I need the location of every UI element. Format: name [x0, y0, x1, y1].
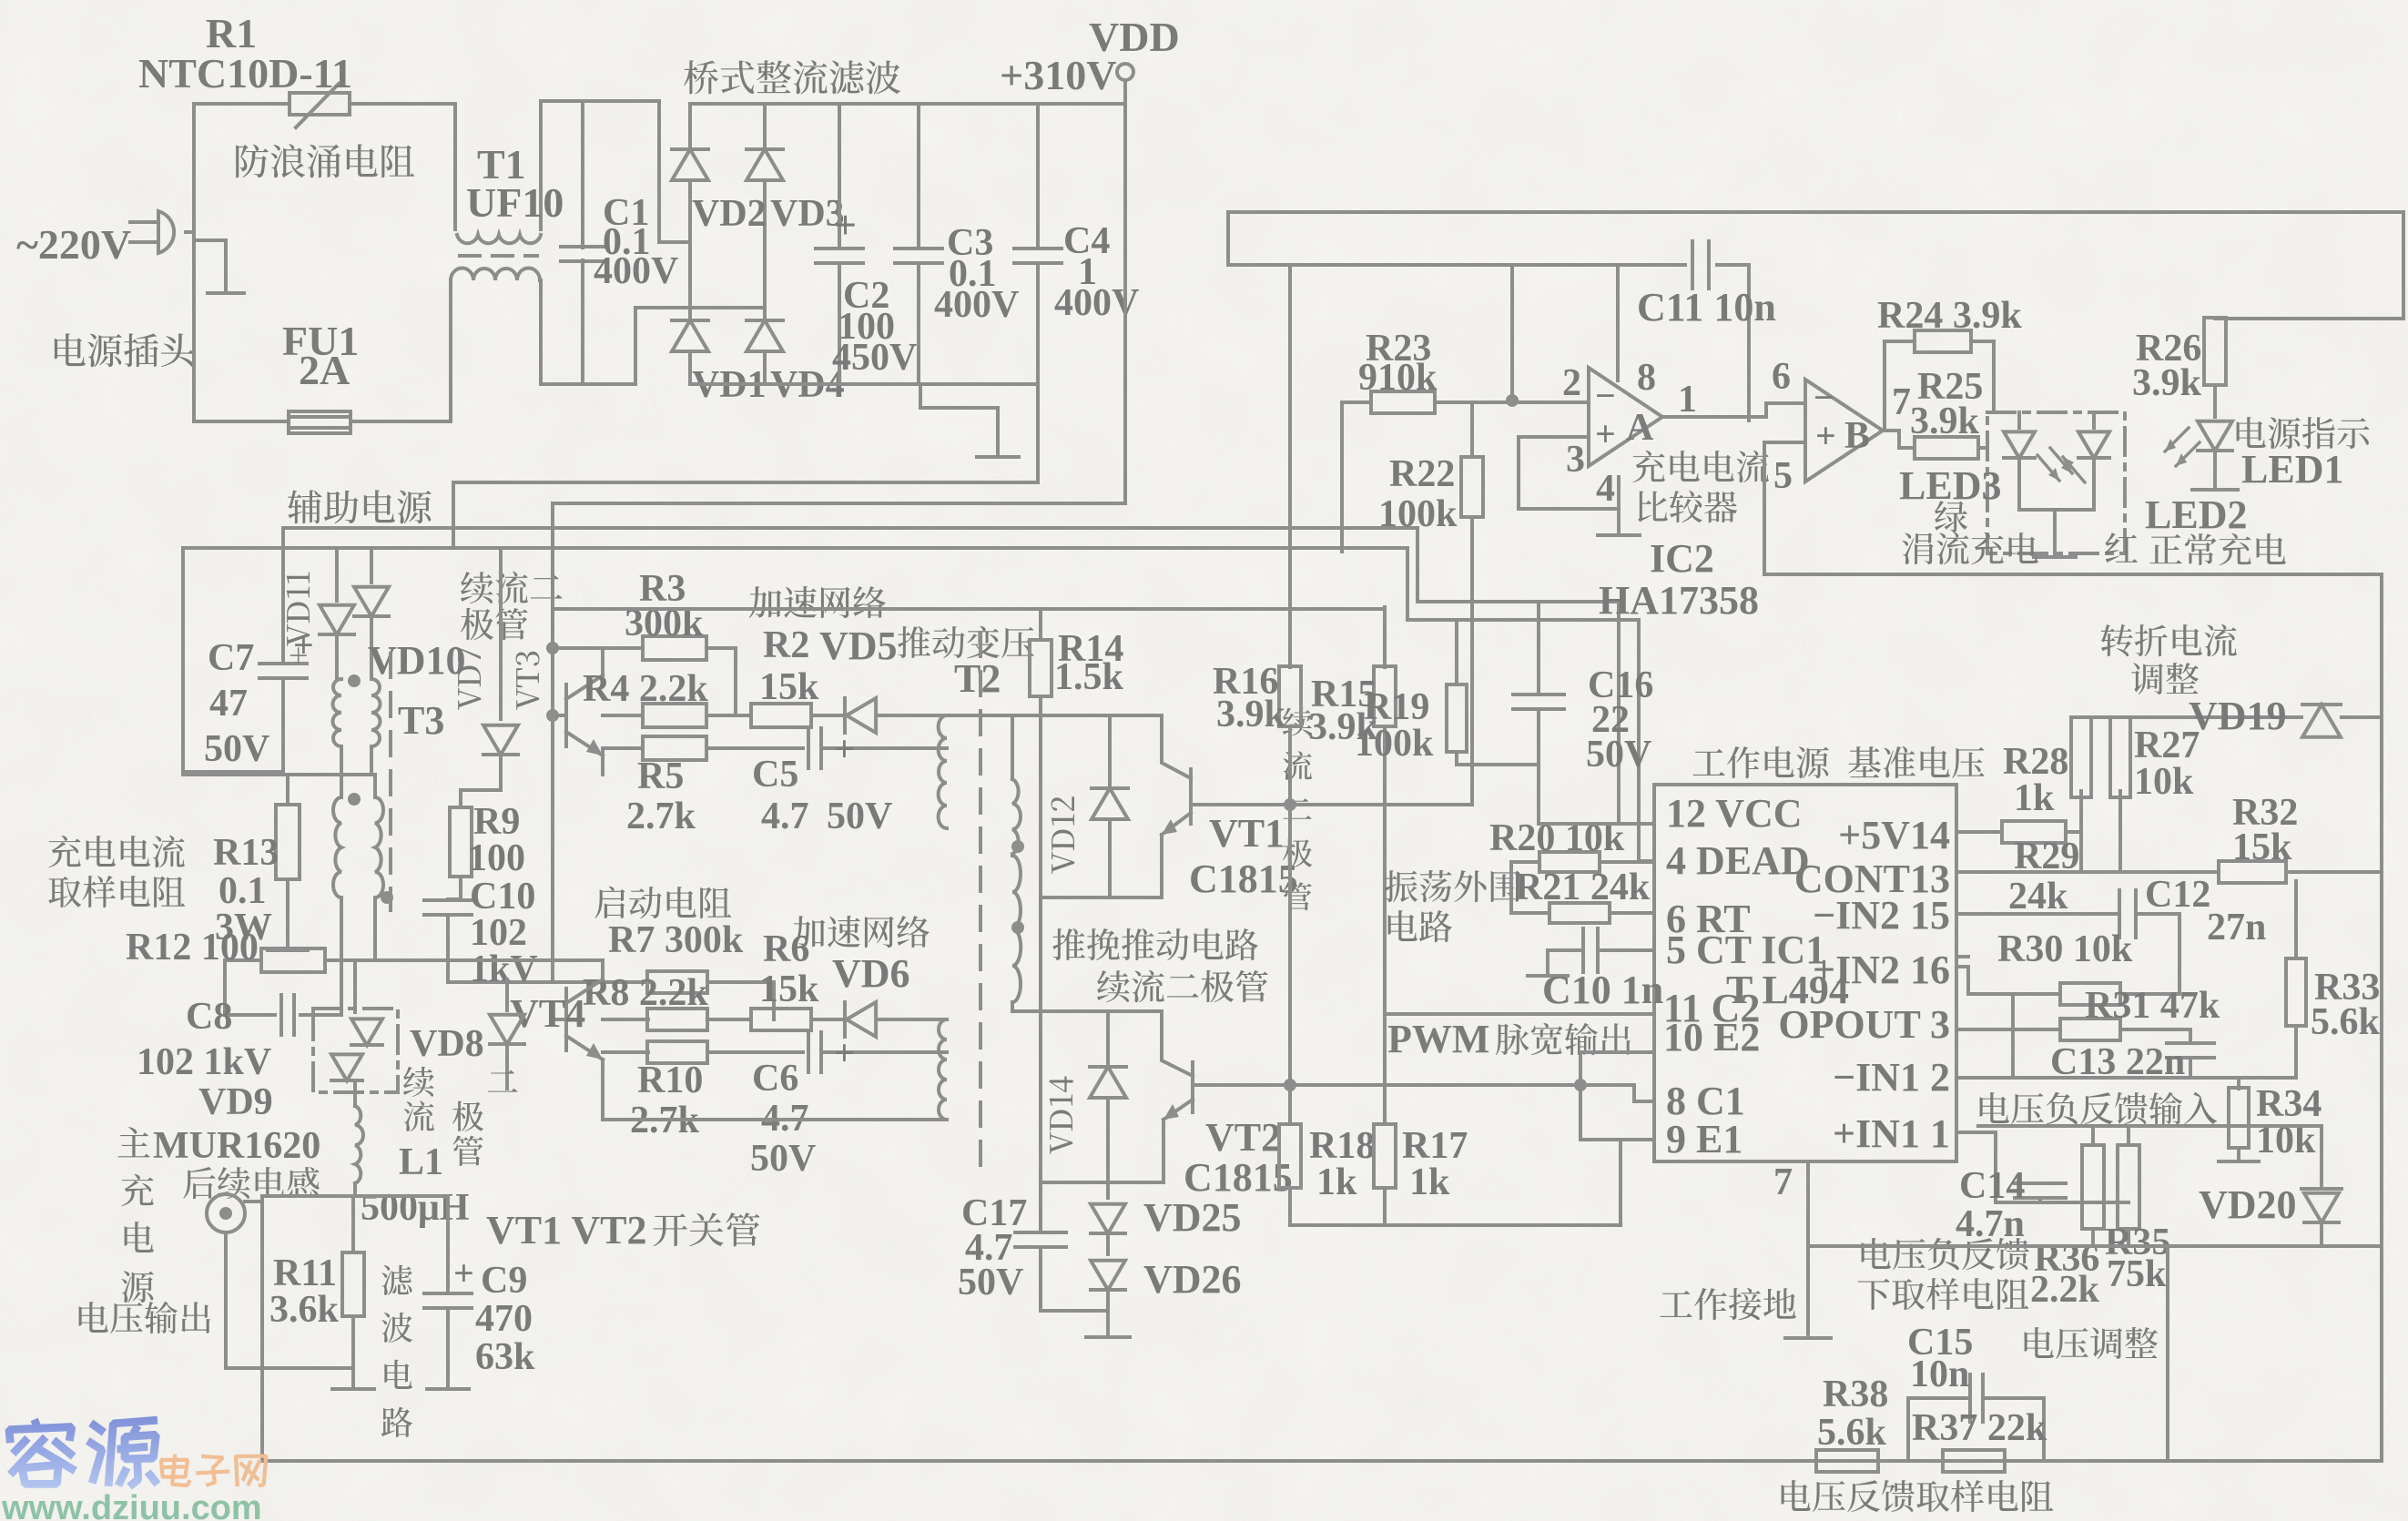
T2 secondary lower coil: [1012, 856, 1021, 1002]
diode VD7: [483, 725, 518, 755]
wire VT1 base row: [1191, 803, 1472, 806]
wire feedback risers: [2166, 1246, 2169, 1461]
wire VT2 base bus to IC: [1193, 1085, 1654, 1101]
wire VD12 bottom row: [1041, 896, 1162, 899]
diode VD26: [1091, 1261, 1125, 1290]
capacitor C15 R37 parallel: [1908, 1398, 1968, 1461]
resistor R10: [603, 1050, 648, 1054]
resistor R5: [603, 746, 643, 750]
op-amp A: [1589, 368, 1662, 466]
wire B out R25: [1883, 431, 1915, 448]
resistor R28: [2071, 717, 2091, 797]
wire pin16 stub: [1956, 967, 1968, 994]
ground VD26: [1086, 1335, 1130, 1339]
diode VD10: [370, 548, 373, 583]
wire feedback row 1237: [1978, 1124, 2322, 1128]
capacitor C8: [223, 960, 227, 1015]
resistor R6: [751, 1009, 811, 1030]
transformer T3 lower windings: [348, 793, 361, 806]
diode VD6: [847, 1002, 876, 1037]
wire pin10 E2 / pin9 E1 tie: [1580, 1050, 1654, 1054]
label 启动电阻: [594, 887, 625, 918]
label 续流二 极管: [461, 572, 493, 603]
label 电源指示 LED1: [2237, 417, 2266, 448]
wire ground row B: [1808, 1244, 2382, 1248]
ground C15 stem: [1806, 1320, 1810, 1323]
watermark 容源: [5, 1418, 77, 1488]
wire VT2 bottom row: [1041, 1181, 1163, 1184]
label 转折电流 调整: [2101, 624, 2133, 656]
LED1: [2198, 421, 2232, 451]
labels 红 正常充电 LED2: [2106, 532, 2138, 563]
wire pin15 row with C12: [1956, 912, 2118, 916]
wire pin1 row and C14 net: [1956, 1132, 2129, 1202]
wire pin11 C2 left to R17 column: [1385, 1012, 1654, 1016]
wire pin2 -IN1 row: [1956, 1076, 2296, 1080]
resistor R38: [1816, 1450, 1878, 1472]
wire AC1 jog to bridge: [541, 99, 659, 103]
wire H3 row: [553, 607, 1385, 611]
resistor R13: [286, 775, 290, 805]
capacitor C4: [1036, 104, 1040, 248]
wire aux box left: [181, 548, 185, 772]
wire VT4 emitter bottom loop: [603, 1089, 947, 1120]
resistor R4: [603, 714, 643, 717]
resistor R11: [351, 1196, 355, 1252]
resistor R15: [1383, 607, 1387, 667]
resistor R8: [603, 1018, 648, 1021]
label 充电电流 比较器: [1632, 451, 1664, 483]
wire T2 top row: [947, 714, 1162, 717]
wire far right vertical: [2380, 574, 2383, 1461]
label 加速网络 2: [793, 916, 825, 948]
wire C11 row y291: [1228, 263, 1685, 267]
capacitor C6: [807, 1032, 810, 1072]
wire C17 column: [1039, 1182, 1042, 1232]
wire ~220V plug top lead: [186, 230, 194, 234]
label 桥式整流滤波: [684, 60, 718, 94]
resistor R7: [551, 715, 554, 982]
label 电压调整: [2025, 1327, 2054, 1358]
wire top row y553 VDD feed: [553, 502, 1125, 505]
resistor R20: [1511, 860, 1539, 864]
capacitor C1: [581, 101, 584, 248]
wire pin14 row: [1956, 830, 2001, 834]
capacitor C14: [2015, 1181, 2066, 1185]
wire output left drop: [224, 1232, 228, 1368]
LED arrows inside box: [2037, 448, 2085, 482]
resistor R33: [2294, 881, 2298, 958]
resistor R22: [1470, 402, 1474, 457]
wire DC+ rail to VDD: [690, 102, 1125, 106]
wire AC2 to bridge: [542, 382, 635, 386]
wire op-amp A pin3 loop: [1519, 437, 1619, 509]
resistor R23: [1342, 401, 1371, 404]
wire VD7 column: [452, 482, 455, 548]
wire vertical join -IN1: [2011, 994, 2015, 1078]
capacitor C7: [281, 528, 285, 663]
label 电压负反馈输入: [1980, 1092, 2009, 1123]
resistor R9: [450, 807, 472, 877]
label 加速网络: [749, 586, 781, 618]
label 电压反馈取样电阻: [1782, 1480, 1811, 1511]
wire LED box bottom stem: [2053, 510, 2057, 553]
T2 primary upper coil: [939, 715, 947, 828]
wire plug neutral stub: [194, 240, 226, 293]
label 工作接地: [1660, 1291, 1692, 1317]
wire bus1 y579: [283, 528, 1654, 824]
wire op-amp A pin8: [1616, 265, 1620, 380]
diode VD11: [335, 548, 339, 601]
capacitor C9: [446, 1196, 450, 1293]
resistor R31: [1956, 1028, 2060, 1031]
capacitor C3: [917, 104, 920, 248]
transformer T3 upper windings: [348, 674, 361, 687]
diode VD5: [847, 698, 876, 733]
resistor R34: [2237, 1078, 2240, 1089]
resistor R27: [2110, 717, 2130, 797]
transformer T1 filter: [453, 104, 457, 229]
resistor R18: [1279, 1124, 1301, 1188]
plug P1: [130, 220, 158, 224]
diode VD9 pair in dash-dot box: [313, 1009, 398, 1092]
wire bottom AC lead with fuse: [194, 420, 289, 423]
diode VD19: [2302, 705, 2341, 737]
diode VD8: [505, 979, 509, 1010]
label 推挽推动电路: [1052, 928, 1085, 960]
wire left vertical from plug: [192, 104, 196, 421]
diode VD1: [672, 320, 708, 351]
resistor R12: [225, 958, 261, 962]
capacitor C10a: [448, 899, 461, 900]
wire top row y233: [1228, 212, 2403, 319]
diode VD20: [2320, 1126, 2323, 1185]
resistor R25: [1915, 437, 1978, 459]
resistor R1 NTC: [290, 93, 350, 115]
wire feedback to C11 row: [1510, 265, 1514, 401]
label 电源插头: [55, 333, 86, 366]
wire aux row y851: [183, 773, 375, 776]
wire top AC lead: [194, 102, 290, 106]
label 工作电源 基准电压: [1692, 749, 1724, 776]
LED box dash-dot: [1987, 412, 2125, 553]
LED1 arrows: [2165, 428, 2200, 466]
wire pin13 row: [1956, 870, 2218, 874]
fuse FU1: [289, 411, 351, 433]
transistor VT1: [1162, 715, 1191, 778]
transistor VT2: [1162, 1011, 1193, 1076]
resistor R30: [1968, 992, 2013, 996]
wire DC- rail: [690, 382, 1038, 386]
inductor L1: [355, 1106, 363, 1183]
label 推动变压: [898, 626, 930, 658]
transformer T2 core: [979, 633, 982, 1174]
ground main: [977, 455, 1019, 459]
LED3 symbol: [2017, 412, 2021, 428]
wire A out to B: [1662, 415, 1766, 419]
diode VD4: [747, 320, 783, 351]
diode VD12: [1108, 715, 1112, 785]
wire B pin5 loop: [1764, 442, 2382, 574]
label 后续电感: [183, 1167, 215, 1199]
wire pin8 C1 jog: [1634, 1100, 1654, 1103]
diode VD3: [763, 104, 767, 146]
wire DC- to ground: [920, 384, 998, 454]
IC1 box: [1654, 785, 1956, 1161]
label 防浪涌电阻: [236, 144, 269, 177]
wire R14 column: [1039, 609, 1042, 640]
wire aux feed from C4 bottom: [453, 384, 1038, 482]
capacitor C10 1n: [1600, 948, 1654, 952]
resistor R24: [1885, 341, 1915, 431]
diode VD25: [1106, 1182, 1110, 1198]
transistor VT3: [564, 684, 568, 746]
T2 primary lower coil: [939, 1019, 947, 1120]
label 辅助电源: [288, 490, 321, 523]
terminal VDD +310V: [1117, 64, 1133, 80]
wire output node row: [245, 1200, 262, 1203]
label 电压输出: [79, 1302, 108, 1333]
wire bottom long rail: [262, 1459, 2382, 1463]
wire startup vertical x607: [551, 503, 554, 715]
op-amp B: [1805, 380, 1883, 482]
resistor R16: [1288, 265, 1292, 667]
label 续流二极管 vertical: [1283, 707, 1312, 735]
resistor R32: [2219, 861, 2286, 883]
resistor R2: [751, 704, 811, 727]
resistor R29: [2002, 821, 2066, 843]
transformer T2 lower secondary row: [1012, 1009, 1162, 1013]
capacitor C13: [2167, 1041, 2214, 1045]
diode VD14: [1106, 1011, 1110, 1063]
resistor R3: [553, 646, 643, 650]
label 振荡外围 电路: [1385, 870, 1417, 902]
resistor R35: [2127, 1126, 2130, 1145]
terminal output jack: [207, 1194, 245, 1232]
resistor R19: [1455, 620, 1458, 684]
wire VDD column: [1123, 104, 1127, 503]
wire bus2 y602 box top: [183, 548, 1654, 861]
label 滤波电路 vertical: [381, 1265, 412, 1295]
resistor R21: [1509, 862, 1513, 913]
LED2 symbol: [2092, 412, 2096, 428]
capacitor C2 electrolytic: [838, 104, 841, 248]
capacitor C16: [1537, 602, 1540, 694]
transistor VT4: [564, 989, 568, 1050]
label 电压负反馈 下取样电阻: [1862, 1238, 1891, 1269]
wire R27 R28 top row: [2081, 715, 2301, 719]
wire pin7 column: [1806, 1161, 1810, 1334]
capacitor C5: [807, 728, 810, 768]
label 续流二极管2: [1097, 970, 1130, 1002]
capacitor C11: [1691, 241, 1694, 289]
diode VD2: [688, 104, 692, 146]
label 充电电流 取样电阻: [48, 836, 80, 868]
resistor R17: [1374, 1124, 1396, 1188]
resistor R36: [2091, 1126, 2095, 1145]
wire rail under R18 R17: [1290, 1223, 1621, 1227]
resistor R26: [2204, 318, 2226, 385]
watermark 电子网: [159, 1454, 192, 1487]
resistor R37: [1943, 1450, 2005, 1472]
T2 secondary upper coil: [1011, 715, 1014, 779]
wire C11 feedback drop to A out: [1747, 265, 1751, 421]
